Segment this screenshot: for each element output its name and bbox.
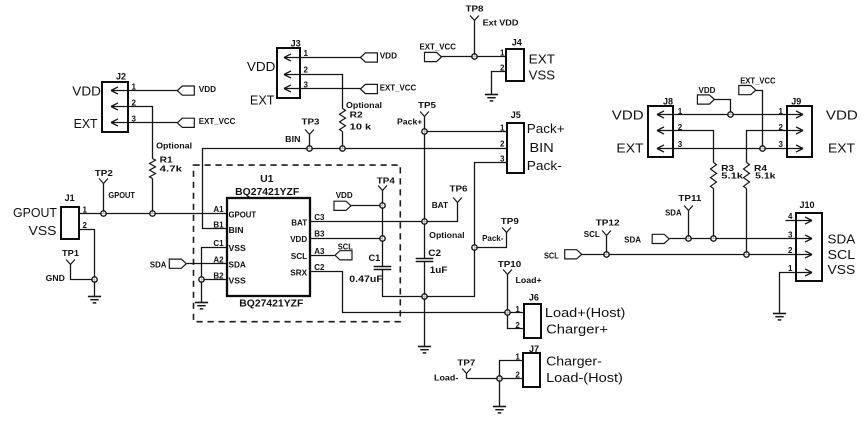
power flag VDD feeding pin1 rail <box>697 95 714 104</box>
svg-text:2: 2 <box>83 221 88 230</box>
svg-text:VDD: VDD <box>199 84 216 94</box>
ground at J7 <box>493 406 506 408</box>
power flag SDA at U1 A2 <box>169 259 186 268</box>
connector J6 <box>524 304 541 338</box>
J8 pin1 arrow <box>657 111 673 118</box>
svg-text:R2: R2 <box>350 109 363 119</box>
svg-text:VDD: VDD <box>380 50 397 60</box>
svg-text:BIN: BIN <box>229 225 244 235</box>
svg-text:SDA: SDA <box>828 232 856 247</box>
test point TP1 <box>66 260 75 265</box>
wire TP8 stem <box>474 21 476 57</box>
resistor R2 <box>340 109 346 132</box>
wire J5 pin1 <box>425 131 507 133</box>
svg-text:4.7k: 4.7k <box>160 163 183 173</box>
svg-text:5.1k: 5.1k <box>755 171 776 181</box>
wire TP6 to BAT junction <box>425 203 458 222</box>
test point TP10 <box>503 270 512 275</box>
wire TP5 vertical Pack+ net upper <box>424 117 426 259</box>
svg-text:2: 2 <box>788 246 793 255</box>
J8 pin3 arrow <box>657 145 673 152</box>
svg-text:VDD: VDD <box>247 59 276 74</box>
wire J8 pin3 to J9 pin3 <box>673 148 787 150</box>
svg-text:J6: J6 <box>529 293 539 303</box>
svg-text:SDA: SDA <box>624 235 641 245</box>
test point TP11 <box>684 206 693 211</box>
J2 pin2 arrow <box>111 103 128 110</box>
wire J7 pin2 to TP7 <box>467 378 524 380</box>
svg-text:Pack-: Pack- <box>482 233 503 243</box>
svg-text:TP2: TP2 <box>95 168 113 178</box>
power flag EXT_VCC at J2 pin3 <box>177 118 194 127</box>
wire TP1 to J1 pin2 net <box>71 265 95 280</box>
svg-text:Charger+: Charger+ <box>546 321 608 336</box>
wire SDA flag to U1 A2 <box>187 263 227 265</box>
svg-text:J3: J3 <box>291 39 301 49</box>
svg-text:VDD: VDD <box>72 83 101 98</box>
junction R3 on SDA net <box>711 236 716 241</box>
J9 pin1 arrow <box>787 111 803 118</box>
wire TP5 vertical Pack+ net lower <box>424 262 426 297</box>
svg-text:TP3: TP3 <box>302 117 320 127</box>
wire J4 pin2 to ground <box>492 72 507 95</box>
junction U1 B2 VSS <box>199 277 204 282</box>
svg-text:3: 3 <box>788 231 793 240</box>
junction R2 on BIN net <box>340 146 345 151</box>
wire TP9 to Pack- line <box>475 233 507 248</box>
connector J3 <box>277 48 300 98</box>
svg-text:0.47uF: 0.47uF <box>349 274 383 284</box>
svg-text:TP5: TP5 <box>418 100 436 110</box>
junction BAT net at C2 top <box>422 219 427 224</box>
power flag VDD at J3 pin1 <box>360 53 377 62</box>
svg-text:1: 1 <box>515 305 520 314</box>
svg-text:BIN: BIN <box>530 140 554 155</box>
test point TP2 <box>99 179 108 184</box>
svg-text:3: 3 <box>678 140 683 149</box>
junction J7 pins/ground <box>497 376 502 381</box>
svg-text:1: 1 <box>500 123 505 132</box>
capacitor C2 <box>416 258 434 260</box>
svg-text:EXT: EXT <box>616 141 643 156</box>
wire U1 C1 VSS to ground rail <box>202 248 227 303</box>
svg-text:Load-(Host): Load-(Host) <box>546 370 623 385</box>
wire TP7 stem <box>466 374 468 379</box>
wire junction to ground at J7 <box>499 379 501 407</box>
resistor R3 <box>711 163 717 189</box>
svg-text:VDD: VDD <box>290 234 307 244</box>
svg-text:TP8: TP8 <box>466 3 484 13</box>
wire TP4 stem down to C1 <box>382 191 384 267</box>
junction R4 on SCL net <box>744 252 749 257</box>
wire U1 C3 BAT net <box>310 221 425 223</box>
svg-text:SDA: SDA <box>665 207 682 217</box>
ground at J1 <box>88 296 101 298</box>
svg-text:J8: J8 <box>663 96 673 106</box>
svg-text:VSS: VSS <box>29 223 57 238</box>
junction TP10 on Load+ net <box>505 310 510 315</box>
svg-text:EXT: EXT <box>74 116 98 131</box>
svg-text:BQ27421YZF: BQ27421YZF <box>239 299 303 310</box>
junction TP9 on Pack- line <box>472 245 477 250</box>
wire TP3 stem <box>309 135 311 149</box>
svg-text:EXT: EXT <box>529 52 555 67</box>
svg-text:TP11: TP11 <box>678 193 701 203</box>
connector J2 <box>102 82 128 132</box>
svg-text:EXT_VCC: EXT_VCC <box>740 76 775 86</box>
svg-text:BAT: BAT <box>291 218 308 228</box>
resistor R4 <box>744 163 750 189</box>
svg-text:Load+: Load+ <box>516 275 542 285</box>
wire R4 to SCL net <box>746 189 748 255</box>
svg-text:GPOUT: GPOUT <box>13 205 57 220</box>
wire J2 pin2 to R1 <box>128 107 153 159</box>
svg-text:GPOUT: GPOUT <box>229 210 257 220</box>
J3 pin3 arrow <box>284 85 300 92</box>
svg-text:VDD: VDD <box>336 190 353 200</box>
svg-text:EXT_VCC: EXT_VCC <box>380 83 417 93</box>
test point TP12 <box>602 231 611 236</box>
capacitor C1 <box>374 266 392 268</box>
svg-text:5.1k: 5.1k <box>721 171 743 181</box>
svg-text:J2: J2 <box>116 71 126 81</box>
svg-text:TP7: TP7 <box>457 358 475 368</box>
J10 pin2 arrow <box>796 251 812 258</box>
svg-text:Load-: Load- <box>434 372 458 382</box>
wire C1 bottom to ground rail <box>383 270 425 297</box>
wire J3 pin1 to VDD flag <box>301 57 361 59</box>
J10 pin4 stub <box>786 220 797 222</box>
svg-text:GND: GND <box>46 273 65 283</box>
test point TP3 <box>305 130 314 135</box>
power flag SCL at U1 A3 <box>335 251 352 260</box>
svg-text:Ext VDD: Ext VDD <box>483 18 519 28</box>
power flag SDA mid <box>652 234 669 243</box>
junction TP8 on EXT_VCC wire <box>472 54 477 59</box>
power flag EXT_VCC at J3 pin3 <box>360 84 377 93</box>
test point TP9 <box>502 228 511 233</box>
junction TP2 on GPOUT net <box>101 211 106 216</box>
svg-text:C1: C1 <box>213 239 224 248</box>
wire J8 pin2 to R3 <box>673 131 714 163</box>
wire J3 pin3 to EXT_VCC flag <box>301 88 361 90</box>
J3 pin1 arrow <box>284 54 300 61</box>
J9 pin2 arrow <box>787 127 803 134</box>
svg-text:SDA: SDA <box>150 260 167 270</box>
junction TP5 at J5 pin1 <box>422 129 427 134</box>
svg-text:1: 1 <box>500 49 505 58</box>
svg-text:Load+(Host): Load+(Host) <box>545 305 626 320</box>
junction VDD flag on TP4 line <box>380 203 385 208</box>
svg-text:2: 2 <box>500 140 505 149</box>
svg-text:BAT: BAT <box>432 200 449 210</box>
test point TP8 <box>470 16 479 21</box>
wire R3 to SDA net <box>713 189 715 239</box>
wire J9 pin2 to R4 <box>747 131 787 163</box>
ground center <box>418 346 431 348</box>
svg-text:2: 2 <box>304 66 309 75</box>
junction TP11 on SDA net <box>686 236 691 241</box>
svg-text:Pack-: Pack- <box>527 158 562 173</box>
svg-text:B3: B3 <box>314 230 325 239</box>
svg-text:C3: C3 <box>314 213 325 222</box>
svg-text:Optional: Optional <box>156 140 192 150</box>
svg-text:1uF: 1uF <box>430 265 448 275</box>
svg-text:BQ27421YZF: BQ27421YZF <box>235 187 299 198</box>
wire TP10 to SRX/Load+ net <box>507 275 509 313</box>
svg-text:TP4: TP4 <box>377 176 395 186</box>
svg-text:Charger-: Charger- <box>546 354 602 369</box>
J2 pin1 arrow <box>111 87 128 94</box>
svg-text:J5: J5 <box>511 110 521 120</box>
svg-text:Optional: Optional <box>429 230 464 240</box>
wire J8 pin1 to J9 pin1 <box>673 114 787 116</box>
J10 pin4 arrow <box>796 217 812 224</box>
svg-text:VSS: VSS <box>229 276 247 286</box>
power flag VDD at U1 VDD net <box>334 201 351 210</box>
svg-text:SCL: SCL <box>291 251 308 261</box>
svg-text:EXT_VCC: EXT_VCC <box>199 116 236 126</box>
wire EXT_VCC flag to pin3 rail <box>756 91 763 149</box>
wire J1 pin1 GPOUT net <box>79 213 227 215</box>
svg-text:TP1: TP1 <box>62 248 79 258</box>
wire J10 pin1 to ground <box>780 273 797 314</box>
wire J3 pin2 to R2 <box>301 75 343 109</box>
power flag EXT_VCC feeding pin3 rail <box>739 86 756 95</box>
svg-text:J7: J7 <box>529 344 539 354</box>
svg-text:C2: C2 <box>428 248 441 258</box>
svg-text:SDA: SDA <box>229 260 246 270</box>
connector J7 <box>523 353 540 387</box>
svg-text:VDD: VDD <box>612 108 644 123</box>
test point TP6 <box>453 198 462 203</box>
ground at U1 VSS <box>195 302 208 304</box>
svg-text:U1: U1 <box>260 174 274 185</box>
wire TP2 stem <box>103 184 105 214</box>
wire U1 C2 SRX to J6 <box>310 272 524 313</box>
svg-text:B1: B1 <box>213 221 224 230</box>
wire J6 pin2 branch <box>508 313 524 329</box>
wire TP11 stem <box>688 211 690 239</box>
power flag VDD at J2 pin1 <box>177 86 194 95</box>
svg-text:EXT_VCC: EXT_VCC <box>420 41 457 51</box>
svg-text:A1: A1 <box>213 205 224 214</box>
wire U1 A3 to SCL flag <box>310 255 335 257</box>
svg-text:TP10: TP10 <box>498 259 522 269</box>
wire R2 to BIN net <box>342 132 344 149</box>
wire TP12 stem <box>606 236 608 255</box>
junction TP12 on SCL net <box>604 252 609 257</box>
svg-text:C2: C2 <box>314 263 325 272</box>
svg-text:BIN: BIN <box>285 134 300 144</box>
wire VDD flag to TP4 line <box>351 205 383 207</box>
svg-text:SCL: SCL <box>584 229 600 239</box>
svg-text:VSS: VSS <box>229 243 247 253</box>
svg-text:VDD: VDD <box>699 85 716 95</box>
svg-text:A3: A3 <box>314 247 325 256</box>
svg-text:VDD: VDD <box>826 108 858 123</box>
IC U1 BQ27421YZF body <box>227 198 310 296</box>
junction R1 on GPOUT net <box>150 211 155 216</box>
wire J1 pin2 to ground <box>79 230 95 297</box>
power flag SCL mid <box>565 250 582 259</box>
junction bottom rail <box>422 294 427 299</box>
svg-text:EXT: EXT <box>828 141 855 156</box>
test point TP7 <box>462 369 471 374</box>
svg-text:VSS: VSS <box>828 262 856 277</box>
connector J8 <box>648 106 673 157</box>
power flag EXT_VCC feeding J4 <box>425 52 442 61</box>
wire U1 B2 VSS <box>202 279 227 281</box>
wire BIN net to U1 B1 <box>203 149 507 229</box>
svg-text:Optional: Optional <box>346 100 382 110</box>
svg-text:J1: J1 <box>65 193 75 203</box>
junction VDD on pin1 rail <box>728 112 733 117</box>
svg-text:10 k: 10 k <box>350 122 372 132</box>
J10 pin3 arrow <box>796 235 812 242</box>
connector J10 <box>796 213 822 281</box>
svg-text:EXT: EXT <box>250 93 275 108</box>
svg-text:SRX: SRX <box>290 267 307 277</box>
wire J2 pin3 to EXT_VCC flag <box>128 122 178 124</box>
svg-text:SCL: SCL <box>828 247 856 262</box>
svg-text:2: 2 <box>515 321 520 330</box>
J9 pin3 arrow <box>787 145 803 152</box>
wire J7 pin1 to junction <box>500 361 524 379</box>
svg-text:J4: J4 <box>512 38 522 48</box>
svg-text:J9: J9 <box>791 96 801 106</box>
svg-text:TP6: TP6 <box>450 183 468 193</box>
connector J1 <box>61 207 79 239</box>
svg-text:3: 3 <box>779 140 784 149</box>
wire J5 pin3 Pack- net down to rail <box>425 163 507 297</box>
wire VDD flag to pin1 rail <box>715 100 731 115</box>
connector J4 <box>506 49 524 81</box>
wire J2 pin1 to VDD flag <box>128 90 178 92</box>
svg-text:SCL: SCL <box>544 250 559 260</box>
wire R1 to GPOUT net <box>152 179 154 214</box>
svg-text:J10: J10 <box>799 200 814 210</box>
dashed optional boundary box <box>194 165 401 322</box>
ground at J4 <box>485 94 498 96</box>
connector J5 <box>507 123 524 173</box>
svg-text:1: 1 <box>788 264 793 273</box>
connector J9 <box>787 106 812 157</box>
test point TP4 <box>378 186 387 191</box>
J8 pin2 arrow <box>657 127 673 134</box>
wire rail to center ground <box>424 297 426 347</box>
svg-text:SCL: SCL <box>338 242 353 252</box>
svg-text:TP12: TP12 <box>596 218 620 228</box>
svg-text:C1: C1 <box>369 253 381 263</box>
svg-text:Pack+: Pack+ <box>527 121 565 136</box>
wire SCL net to J10 pin2 <box>582 254 797 256</box>
resistor R1 <box>150 159 156 179</box>
ground at J10 <box>773 313 786 315</box>
junction EXT_VCC on pin3 rail <box>760 146 765 151</box>
J2 pin3 arrow <box>111 119 128 126</box>
svg-text:Pack+: Pack+ <box>397 116 422 126</box>
J10 pin1 arrow <box>796 269 812 276</box>
svg-text:VSS: VSS <box>529 68 556 83</box>
wire U1 B3 VDD <box>310 238 383 240</box>
junction B3 VDD on TP4 line <box>380 236 385 241</box>
J3 pin2 arrow <box>284 71 300 78</box>
wire EXT_VCC to J4 pin1 <box>442 56 507 58</box>
junction TP1/J1 pin2 <box>92 277 97 282</box>
test point TP5 <box>420 112 429 117</box>
junction TP3 on BIN net <box>307 146 312 151</box>
wire SDA net to J10 pin3 <box>670 238 797 240</box>
svg-text:TP9: TP9 <box>501 216 519 226</box>
svg-text:4: 4 <box>788 212 793 221</box>
svg-text:GPOUT: GPOUT <box>108 190 135 200</box>
